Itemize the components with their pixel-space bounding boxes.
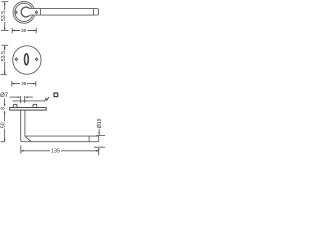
dim 135 line <box>21 150 99 152</box>
rose inner circle <box>15 3 33 21</box>
dim 53.5 (view1) tick bottom <box>1 30 9 32</box>
dim 38 (view1) arrow left <box>12 30 15 32</box>
rose screw boss left <box>13 104 17 107</box>
dia19 ext line top <box>96 134 105 136</box>
dim 53.5 (view2) tick bottom <box>1 74 7 76</box>
dim 53.5 (view2) line <box>4 46 6 74</box>
dia7 ext line right <box>24 96 26 103</box>
neck right line <box>24 110 26 136</box>
dim 53.5 (view1) arrow up <box>4 2 6 5</box>
dia19 arrow up + shaft lower / 135 right ext <box>98 147 100 150</box>
dim 135 arrow right <box>96 150 99 152</box>
dim 53.5 (view2) tick top <box>2 44 9 46</box>
dim 53.5 (view1) line <box>4 2 6 30</box>
dim 135 ext left <box>20 145 22 153</box>
elbow miter seam <box>25 136 31 141</box>
dim 38 (view1) arrow right <box>33 30 36 32</box>
grip bottom edge <box>22 141 97 143</box>
dim 50 shaft upper <box>4 111 6 121</box>
svg-text:50: 50 <box>1 122 7 128</box>
dim 50 arrow up <box>4 110 6 113</box>
oval keyhole ring <box>25 54 29 65</box>
neck ring interior <box>22 8 30 16</box>
grip end cap joint <box>88 136 90 141</box>
lever bar rounded end cap <box>97 9 98 16</box>
svg-text:38: 38 <box>21 28 27 33</box>
neck joint line <box>39 9 41 15</box>
square spindle symbol <box>54 93 58 97</box>
dim 50 shaft lower <box>4 129 6 142</box>
escutcheon circle <box>13 46 41 74</box>
dim 38 (view1) ext right <box>35 28 37 34</box>
svg-text:8: 8 <box>1 107 7 110</box>
dim 53.5 (view1) arrow down <box>4 28 6 31</box>
svg-text:Ø7: Ø7 <box>0 93 9 99</box>
dia7 dim line left with arrow <box>10 96 18 98</box>
dim 50 arrow down <box>4 139 6 142</box>
rose screw boss right <box>33 104 37 107</box>
escutcheon screw diamond right <box>35 58 38 61</box>
svg-text:38: 38 <box>21 81 27 86</box>
dia7 ext line left <box>20 96 22 103</box>
dia19 ext line bottom <box>94 146 105 148</box>
dim 38 (view2) ext right <box>35 81 37 87</box>
dim 53.5 (view2) arrow up <box>4 46 6 49</box>
dim 38 (view2) line <box>12 83 36 85</box>
svg-text:135: 135 <box>51 149 60 155</box>
rose outer circle <box>13 2 35 24</box>
door line break squiggle <box>45 98 50 102</box>
svg-text:53.5: 53.5 <box>1 51 7 61</box>
dim 38 (view1) line <box>12 30 36 32</box>
neck ring C-arc <box>21 7 30 17</box>
dim 50 tick bottom <box>1 141 6 143</box>
lever end cap joint line <box>92 9 94 15</box>
neck grub screw diamond <box>35 11 38 14</box>
dia19 shaft upper + arrow down <box>98 129 100 133</box>
neck left line with elbow corner <box>21 110 22 142</box>
rose side view plate <box>10 108 47 111</box>
dim 38 (view2) ext left <box>11 81 13 87</box>
dim 135 arrow left <box>21 150 24 152</box>
dim 8 shaft and arrow <box>4 98 6 104</box>
lever bar bottom edge <box>30 14 98 16</box>
escutcheon screw diamond left <box>15 58 18 61</box>
rose screw diamond left <box>15 11 18 14</box>
grip rounded end cap <box>98 136 99 142</box>
lever bar white fill <box>30 9 99 16</box>
svg-text:Ø19: Ø19 <box>97 118 103 128</box>
dim 38 (view2) arrow right <box>33 83 36 85</box>
dia7 dim line right with arrow <box>28 96 33 98</box>
dim 53.5 (view2) arrow down <box>4 72 6 75</box>
dim 38 (view1) ext left <box>11 28 13 34</box>
lever bar top edge <box>30 8 98 10</box>
dim 53.5 (view1) tick top <box>2 1 9 3</box>
svg-text:53.5: 53.5 <box>1 11 7 21</box>
grip top edge <box>25 135 98 137</box>
dim 38 (view2) arrow left <box>12 83 15 85</box>
door surface line <box>12 100 45 102</box>
